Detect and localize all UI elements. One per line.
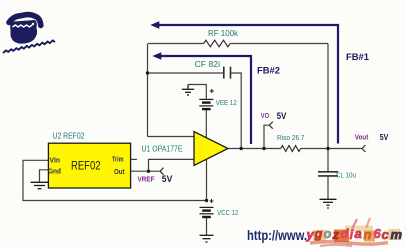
svg-text:5V: 5V [277, 111, 287, 121]
ground (CL) [320, 199, 337, 208]
node VREF junction [147, 170, 150, 173]
node CF/RF junction [146, 71, 149, 74]
svg-text:http://www.: http://www. [247, 228, 307, 243]
svg-text:5V: 5V [162, 174, 173, 185]
FB#1 arrowhead [150, 21, 159, 29]
wire RF top [148, 43, 204, 45]
wire VCC to ground [206, 218, 208, 235]
svg-text:Out: Out [114, 169, 125, 176]
probe VO [269, 122, 273, 129]
probe VREF [160, 168, 164, 175]
wire VO tap [264, 125, 269, 148]
battery VEE plus sign [210, 89, 214, 93]
svg-text:d: d [341, 226, 350, 241]
wire REF02 gnd pin [40, 170, 49, 182]
wire VIn from left rail [23, 160, 207, 200]
op-amp U1 OPA177E [194, 132, 228, 166]
wire CF right [231, 73, 242, 149]
svg-text:CF 82i: CF 82i [195, 60, 221, 69]
svg-text:VEE 12: VEE 12 [216, 98, 237, 107]
wire RF right vertical down to output node and CL [327, 44, 329, 172]
ground (VCC) [200, 235, 214, 242]
svg-text:n: n [364, 227, 372, 242]
svg-text:g: g [314, 226, 323, 241]
battery VCC plus sign [210, 199, 214, 203]
wire trim stub [131, 158, 137, 160]
svg-text:a: a [355, 226, 362, 241]
node VCC junction [205, 199, 208, 202]
ground (REF02 gnd) [31, 182, 49, 188]
feedback annotation FB#2 [159, 56, 251, 144]
wire CL to ground [327, 176, 329, 199]
capacitor CF 82p [224, 67, 231, 79]
svg-text:U1 OPA177E: U1 OPA177E [142, 145, 183, 154]
ground (VEE) [182, 85, 194, 96]
wire op-amp output [228, 148, 281, 150]
wire noninverting input [149, 159, 195, 171]
IC U2 REF02 [48, 143, 130, 188]
FB#2 arrowhead [152, 52, 161, 60]
wire VEE to op-amp V- [205, 110, 207, 138]
svg-text:FB#2: FB#2 [257, 66, 280, 76]
node CF-output junction [240, 147, 243, 150]
svg-text:Riso 26.7: Riso 26.7 [277, 133, 305, 142]
node VO tap junction [262, 147, 265, 150]
battery VCC 12 [200, 207, 214, 217]
battery VEE 12 [199, 99, 213, 109]
svg-text:Gnd: Gnd [48, 169, 61, 176]
svg-text:VCC 12: VCC 12 [217, 208, 238, 217]
svg-text:Trim: Trim [112, 157, 124, 164]
svg-text:5V: 5V [380, 132, 389, 142]
svg-text:VO: VO [261, 111, 269, 120]
feedback annotation FB#1 [157, 25, 338, 144]
svg-text:FB#1: FB#1 [346, 52, 369, 62]
wire VEE gnd link [188, 85, 206, 99]
svg-text:REF02: REF02 [71, 161, 101, 173]
svg-text:c: c [382, 227, 390, 242]
resistor RF 100k [204, 40, 230, 47]
svg-text:y: y [306, 227, 315, 242]
wire node A rail [147, 44, 149, 137]
svg-text:z: z [332, 227, 340, 242]
svg-text:RF 100k: RF 100k [208, 29, 239, 38]
watermark colored glyphs [306, 226, 403, 243]
wire inverting input [148, 136, 195, 138]
probe Vout [362, 145, 366, 152]
node Vout/CL junction [326, 147, 329, 150]
svg-text:m: m [391, 227, 403, 242]
svg-text:CL 10u: CL 10u [336, 171, 356, 180]
wire CF left [148, 72, 224, 74]
svg-text:VIn: VIn [50, 158, 61, 165]
watermark red smear [310, 242, 388, 244]
logo (top-left watermark icon) [3, 15, 55, 53]
svg-text:6: 6 [374, 226, 382, 241]
svg-text:U2 REF02: U2 REF02 [53, 132, 85, 141]
resistor Riso 26.7 [281, 146, 301, 152]
svg-text:Vout: Vout [355, 133, 369, 142]
wire op-amp V+ down to VCC [206, 160, 208, 201]
svg-text:o: o [324, 226, 332, 241]
svg-text:VREF: VREF [138, 175, 155, 184]
capacitor CL 10u [318, 172, 338, 176]
wire REF02 out [131, 170, 160, 172]
